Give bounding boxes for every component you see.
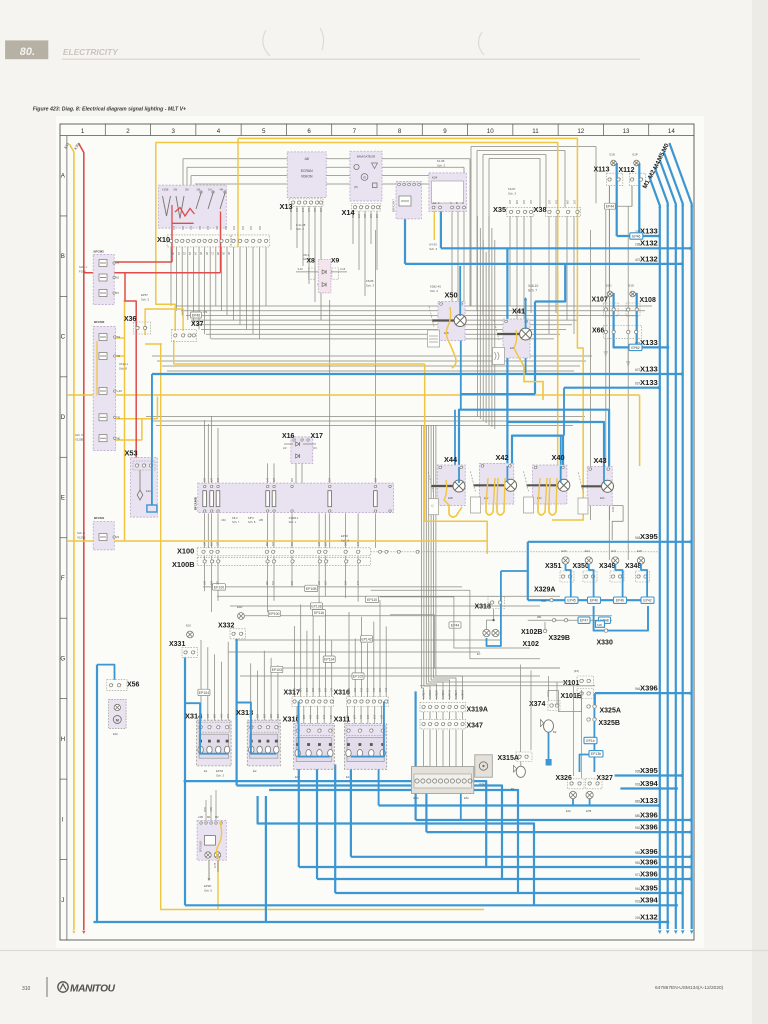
wire <box>449 712 451 719</box>
svg-text:249: 249 <box>635 916 641 920</box>
wire <box>301 463 303 484</box>
column tick <box>648 124 650 136</box>
svg-text:238: 238 <box>635 242 641 246</box>
svg-text:657: 657 <box>312 687 315 692</box>
fuse in BFCM3 <box>99 334 107 341</box>
svg-text:457: 457 <box>373 687 376 692</box>
wire A1B feeds <box>210 795 212 821</box>
wire X326 bulb drop <box>572 799 574 806</box>
X314 contact band <box>199 734 229 758</box>
svg-text:527: 527 <box>272 580 275 585</box>
EP13b box <box>589 751 603 757</box>
yellow 364 riser <box>173 340 175 364</box>
svg-text:387: 387 <box>270 713 273 718</box>
blue S1B box <box>596 621 605 628</box>
svg-text:627: 627 <box>324 580 327 585</box>
svg-text:62: 62 <box>116 276 120 280</box>
header chapter number box 80 <box>5 40 48 59</box>
X313 contact square <box>275 740 278 743</box>
wire <box>573 686 575 776</box>
wire <box>482 240 484 421</box>
svg-text:M2: M2 <box>215 815 219 819</box>
svg-text:327: 327 <box>320 207 323 212</box>
wire <box>217 428 219 484</box>
yellow horizontal 440 <box>114 439 142 441</box>
ground pad X374 <box>546 759 552 766</box>
wire <box>201 329 566 331</box>
connector X35 pin row <box>507 207 534 216</box>
svg-text:E10: E10 <box>186 624 191 628</box>
wire X56 drop <box>96 665 98 922</box>
svg-text:X9: X9 <box>331 258 340 265</box>
wire X313 internal overlay <box>237 703 277 754</box>
connector X10 pin row <box>167 235 231 247</box>
svg-text:X132: X132 <box>640 239 658 248</box>
svg-text:377: 377 <box>308 207 311 212</box>
svg-text:957: 957 <box>291 541 294 546</box>
svg-text:X107: X107 <box>592 297 608 304</box>
wire <box>489 158 540 160</box>
svg-text:40: 40 <box>117 436 121 440</box>
frame row label column line <box>66 136 68 941</box>
gray corner net row G right <box>371 590 540 659</box>
lamp in X50 <box>432 319 455 321</box>
wire <box>204 420 206 484</box>
svg-text:ELECTRICITY: ELECTRICITY <box>63 47 119 57</box>
svg-text:EP18: EP18 <box>341 534 348 538</box>
relay contact <box>374 491 378 507</box>
wire <box>470 147 472 307</box>
wire <box>516 216 518 320</box>
red vertical to X53 <box>125 273 136 463</box>
wire X395 left leg down <box>527 542 529 600</box>
svg-text:M1: M1 <box>207 815 211 819</box>
svg-text:E7: E7 <box>477 652 481 656</box>
svg-text:EP100: EP100 <box>269 612 279 616</box>
svg-text:467: 467 <box>220 713 223 718</box>
svg-text:X331: X331 <box>169 641 185 648</box>
svg-text:X133: X133 <box>640 364 658 373</box>
wire <box>494 240 496 429</box>
connector X348 pins <box>636 571 650 582</box>
sub box X41 <box>493 348 505 365</box>
wire <box>217 513 219 548</box>
svg-text:467: 467 <box>233 225 236 230</box>
svg-text:897: 897 <box>290 207 293 212</box>
wire <box>181 247 183 315</box>
wire X332 drop <box>236 639 238 786</box>
svg-text:NAVIGATEUR: NAVIGATEUR <box>357 155 375 159</box>
X311 contact square <box>359 743 362 746</box>
wire <box>211 338 554 340</box>
svg-text:5: 5 <box>262 128 266 135</box>
wire <box>303 706 305 724</box>
pin in bar <box>468 779 472 783</box>
svg-text:967: 967 <box>291 477 294 482</box>
wire <box>608 186 610 560</box>
svg-text:X41: X41 <box>512 307 525 316</box>
X311 contact band <box>347 738 384 762</box>
svg-text:877: 877 <box>353 714 356 719</box>
column tick <box>285 124 287 136</box>
relay band pin top <box>203 485 205 487</box>
svg-text:657: 657 <box>210 580 213 585</box>
wire <box>345 513 347 548</box>
svg-text:X133: X133 <box>640 338 658 347</box>
svg-text:2B1: 2B1 <box>537 615 542 619</box>
switch contact in X10 <box>196 193 201 209</box>
wire X329A lamp feed line <box>528 599 653 601</box>
yellow stub f5a <box>114 355 125 357</box>
wire <box>151 420 579 422</box>
wire <box>437 681 574 683</box>
wire X326 feed <box>580 755 589 773</box>
pin in bar <box>444 779 448 783</box>
wire X318 stubs <box>487 609 494 630</box>
wire <box>186 167 188 185</box>
red X10 drop 1 <box>171 228 173 262</box>
A1B down arrow <box>208 860 210 878</box>
column tick <box>195 124 197 136</box>
svg-text:X395: X395 <box>640 883 659 892</box>
blue bus vertical M1 <box>649 177 659 929</box>
wire <box>548 676 550 701</box>
gray loop under X43 <box>612 506 623 540</box>
wire <box>360 617 362 697</box>
frame column header line <box>60 135 694 137</box>
X310 top pins <box>295 726 333 736</box>
wire <box>370 211 372 244</box>
pin in bar <box>415 779 419 783</box>
yellow top wire B <box>155 143 557 479</box>
svg-text:937: 937 <box>367 714 370 719</box>
svg-text:A8: A8 <box>305 157 309 161</box>
svg-text:797: 797 <box>314 207 317 212</box>
connector X326 X327 pins <box>570 782 573 785</box>
buzzer B1 <box>516 766 525 777</box>
wire <box>310 706 312 724</box>
wire X310 lower drop c <box>334 765 336 894</box>
headlamp unit X50 <box>438 302 465 341</box>
svg-text:12: 12 <box>577 128 584 135</box>
relay module pins <box>398 183 401 186</box>
K24 pin row <box>432 206 435 209</box>
wire <box>424 425 430 700</box>
X310 lamp oval <box>328 750 333 757</box>
X311 lamp oval <box>380 750 385 757</box>
svg-text:EP57: EP57 <box>141 293 148 297</box>
wire <box>352 211 354 244</box>
connector X14 pin row <box>352 204 381 212</box>
svg-text:X395: X395 <box>640 532 659 541</box>
wire X132 <box>94 921 668 923</box>
wire <box>358 211 360 270</box>
svg-text:K1-86: K1-86 <box>437 159 445 163</box>
svg-text:1M: 1M <box>208 187 212 191</box>
schematic outer frame <box>60 124 694 940</box>
wire <box>152 355 592 357</box>
relay band pin bottom <box>203 510 205 512</box>
wire X318 feed <box>487 571 501 646</box>
wire <box>291 556 293 587</box>
svg-text:757: 757 <box>199 225 202 230</box>
relay band pin bottom <box>374 510 376 512</box>
wire X327 bulb drop <box>589 799 591 806</box>
svg-text:X395: X395 <box>640 766 659 775</box>
svg-text:C: C <box>61 334 66 341</box>
wire <box>207 513 209 548</box>
wire lamp feed <box>589 564 594 598</box>
svg-text:2M: 2M <box>197 187 201 191</box>
wire X133 <box>617 235 660 237</box>
svg-text:937: 937 <box>354 687 357 692</box>
svg-text:Sch. 2: Sch. 2 <box>296 227 304 231</box>
wire <box>146 416 585 418</box>
wire <box>324 556 326 596</box>
wire <box>457 176 459 316</box>
X313 lamp oval <box>257 746 262 753</box>
wire <box>176 247 178 311</box>
relay band BFC/UMB <box>198 483 394 512</box>
svg-text:7: 7 <box>353 128 357 135</box>
wire <box>436 712 438 719</box>
svg-text:X102: X102 <box>523 641 539 648</box>
wire <box>211 556 213 613</box>
svg-text:947: 947 <box>227 713 230 718</box>
svg-text:23: 23 <box>116 535 120 539</box>
X313 lamp oval <box>265 746 270 753</box>
svg-text:Sch. 3: Sch. 3 <box>216 774 224 778</box>
wire <box>227 642 229 723</box>
wire <box>200 640 202 723</box>
svg-text:X351: X351 <box>545 563 561 570</box>
svg-text:X38: X38 <box>534 205 547 214</box>
svg-text:X35: X35 <box>493 205 506 214</box>
svg-text:X326: X326 <box>556 775 572 782</box>
svg-text:E21: E21 <box>611 549 616 553</box>
svg-text:X319A: X319A <box>467 707 488 714</box>
wire X395 <box>528 541 691 543</box>
wire <box>330 706 332 724</box>
yellow horizontal 364 <box>174 363 425 365</box>
svg-text:377: 377 <box>423 689 426 694</box>
svg-text:E1D: E1D <box>629 284 634 288</box>
svg-text:197: 197 <box>217 541 220 546</box>
wire X329B drop <box>544 622 546 629</box>
connector X347 row <box>420 719 466 729</box>
wire X112 pin link <box>615 186 632 207</box>
svg-text:J: J <box>61 897 64 904</box>
connector X100B row <box>197 557 370 565</box>
svg-text:897: 897 <box>303 714 306 719</box>
yellow curve in X44 overlay <box>444 480 462 517</box>
wire <box>429 712 431 719</box>
svg-text:X16: X16 <box>282 433 295 440</box>
svg-text:207: 207 <box>242 225 245 230</box>
lamp in X42 <box>473 484 505 486</box>
wire <box>431 425 449 700</box>
wire <box>308 206 310 284</box>
svg-text:☼: ☼ <box>430 503 435 509</box>
svg-text:807: 807 <box>263 713 266 718</box>
svg-text:457: 457 <box>182 225 185 230</box>
connector X317 row <box>292 697 334 707</box>
footer separator bar <box>46 977 48 997</box>
headlamp unit X42 <box>479 463 513 504</box>
wire <box>548 216 550 334</box>
connector X38 pin row <box>546 207 581 216</box>
yellow curve in A1B overlay <box>216 822 221 860</box>
wire <box>385 626 387 697</box>
display unit A8 ECRAN VISION <box>287 152 326 198</box>
svg-text:5M: 5M <box>174 187 178 191</box>
wire <box>267 463 269 484</box>
pin in bar <box>439 779 443 783</box>
diode module X8 X9 center <box>318 260 331 293</box>
headlamp unit X40 <box>533 465 567 504</box>
EP46b box <box>191 312 202 318</box>
wire <box>176 305 652 307</box>
wire X394 <box>185 904 676 906</box>
wire <box>302 206 304 266</box>
red horizontal row B lower <box>84 272 221 274</box>
svg-text:Sch. 5: Sch. 5 <box>204 889 212 893</box>
svg-text:197: 197 <box>217 580 220 585</box>
column tick <box>421 124 423 136</box>
wire <box>204 513 206 548</box>
connector X349 pins <box>610 571 624 582</box>
yellow X43 feed <box>639 395 641 466</box>
wire <box>246 247 248 330</box>
svg-text:867: 867 <box>277 713 280 718</box>
blue wire in X44 overlay <box>458 467 460 483</box>
svg-text:K15B: K15B <box>162 187 169 191</box>
svg-text:607: 607 <box>635 368 641 372</box>
svg-text:EP46: EP46 <box>192 313 200 317</box>
svg-text:952: 952 <box>635 851 641 855</box>
relay band pin top <box>273 485 275 487</box>
wire <box>211 416 213 484</box>
wire X133 <box>152 373 682 375</box>
X313 top pins <box>249 722 279 732</box>
wire <box>226 247 228 315</box>
wire bar drop 2 <box>425 766 427 832</box>
svg-text:X325B: X325B <box>599 720 620 727</box>
X311 lamp oval <box>357 750 362 757</box>
svg-text:310: 310 <box>22 986 31 992</box>
relay contact <box>328 491 332 507</box>
svg-text:267: 267 <box>370 213 373 218</box>
wire <box>204 556 206 592</box>
wire K24 feed leg <box>440 211 442 248</box>
svg-text:877: 877 <box>455 689 458 694</box>
relay band pin bottom <box>291 510 293 512</box>
fuse in BFCM2 <box>99 290 107 297</box>
wire <box>357 513 359 548</box>
svg-text:647867EN-USM134(A-12/2020): 647867EN-USM134(A-12/2020) <box>655 985 724 991</box>
svg-text:EP110: EP110 <box>367 598 377 602</box>
svg-text:417: 417 <box>449 689 452 694</box>
svg-text:X44: X44 <box>444 455 458 464</box>
connector block X314 <box>197 720 232 766</box>
switch contact in X10 <box>220 193 225 209</box>
wire <box>182 159 184 185</box>
wire <box>329 300 331 484</box>
X314 contact square <box>199 740 202 743</box>
bus arrow junctions <box>658 205 661 208</box>
wire X396 <box>416 819 691 821</box>
svg-text:80.: 80. <box>20 46 35 58</box>
fuse in BFCM3 <box>99 353 107 360</box>
svg-text:897: 897 <box>379 687 382 692</box>
yellow horizontal 418 <box>114 418 157 420</box>
svg-text:E43: E43 <box>600 497 605 500</box>
lamp X349 <box>612 557 619 564</box>
yellow riser F5F <box>156 397 158 419</box>
svg-text:317: 317 <box>358 213 361 218</box>
wire bar drop 3 <box>460 772 462 820</box>
wire <box>390 615 560 668</box>
svg-text:507: 507 <box>348 687 351 692</box>
svg-text:717: 717 <box>173 225 176 230</box>
wire <box>455 712 457 719</box>
svg-text:X374: X374 <box>529 701 545 708</box>
wire lamp feed <box>641 564 647 598</box>
connector X351 pins <box>560 571 574 582</box>
wire <box>162 365 580 367</box>
svg-text:E20: E20 <box>637 549 642 553</box>
wire <box>198 247 200 330</box>
svg-text:267: 267 <box>345 580 348 585</box>
wire <box>482 155 484 316</box>
wire <box>374 706 376 724</box>
wire <box>485 252 487 423</box>
wire X132 <box>441 247 691 249</box>
wire <box>157 360 586 362</box>
svg-text:X327: X327 <box>597 775 613 782</box>
svg-text:507: 507 <box>259 225 262 230</box>
row tick <box>60 698 67 700</box>
wire <box>318 636 320 697</box>
svg-text:X317: X317 <box>284 690 300 697</box>
relay band pin bottom <box>329 510 331 512</box>
wire <box>170 247 172 306</box>
EP boxes lamps row <box>565 597 578 603</box>
svg-text:737: 737 <box>364 213 367 218</box>
X314 contact square <box>226 740 229 743</box>
wire <box>323 706 325 724</box>
wire X44-X43 bracket outer <box>459 410 609 467</box>
svg-text:951: 951 <box>635 861 641 865</box>
svg-text:K2A: K2A <box>480 782 485 786</box>
wire <box>230 605 540 607</box>
wire <box>434 425 457 700</box>
wire X50 feed <box>459 266 461 315</box>
wire <box>273 556 275 601</box>
wire X396 <box>299 866 691 868</box>
X53 blue terminal overlay <box>147 505 157 512</box>
wire <box>520 665 522 753</box>
wire <box>325 614 327 697</box>
svg-text:Sch. 3: Sch. 3 <box>366 284 374 288</box>
lamp in X40 <box>527 484 559 486</box>
wire <box>191 319 578 321</box>
svg-text:K8-0: K8-0 <box>232 516 238 520</box>
svg-text:E4: E4 <box>346 775 350 779</box>
pin in bar <box>462 779 466 783</box>
wire <box>347 706 349 724</box>
svg-text:637: 637 <box>325 687 328 692</box>
